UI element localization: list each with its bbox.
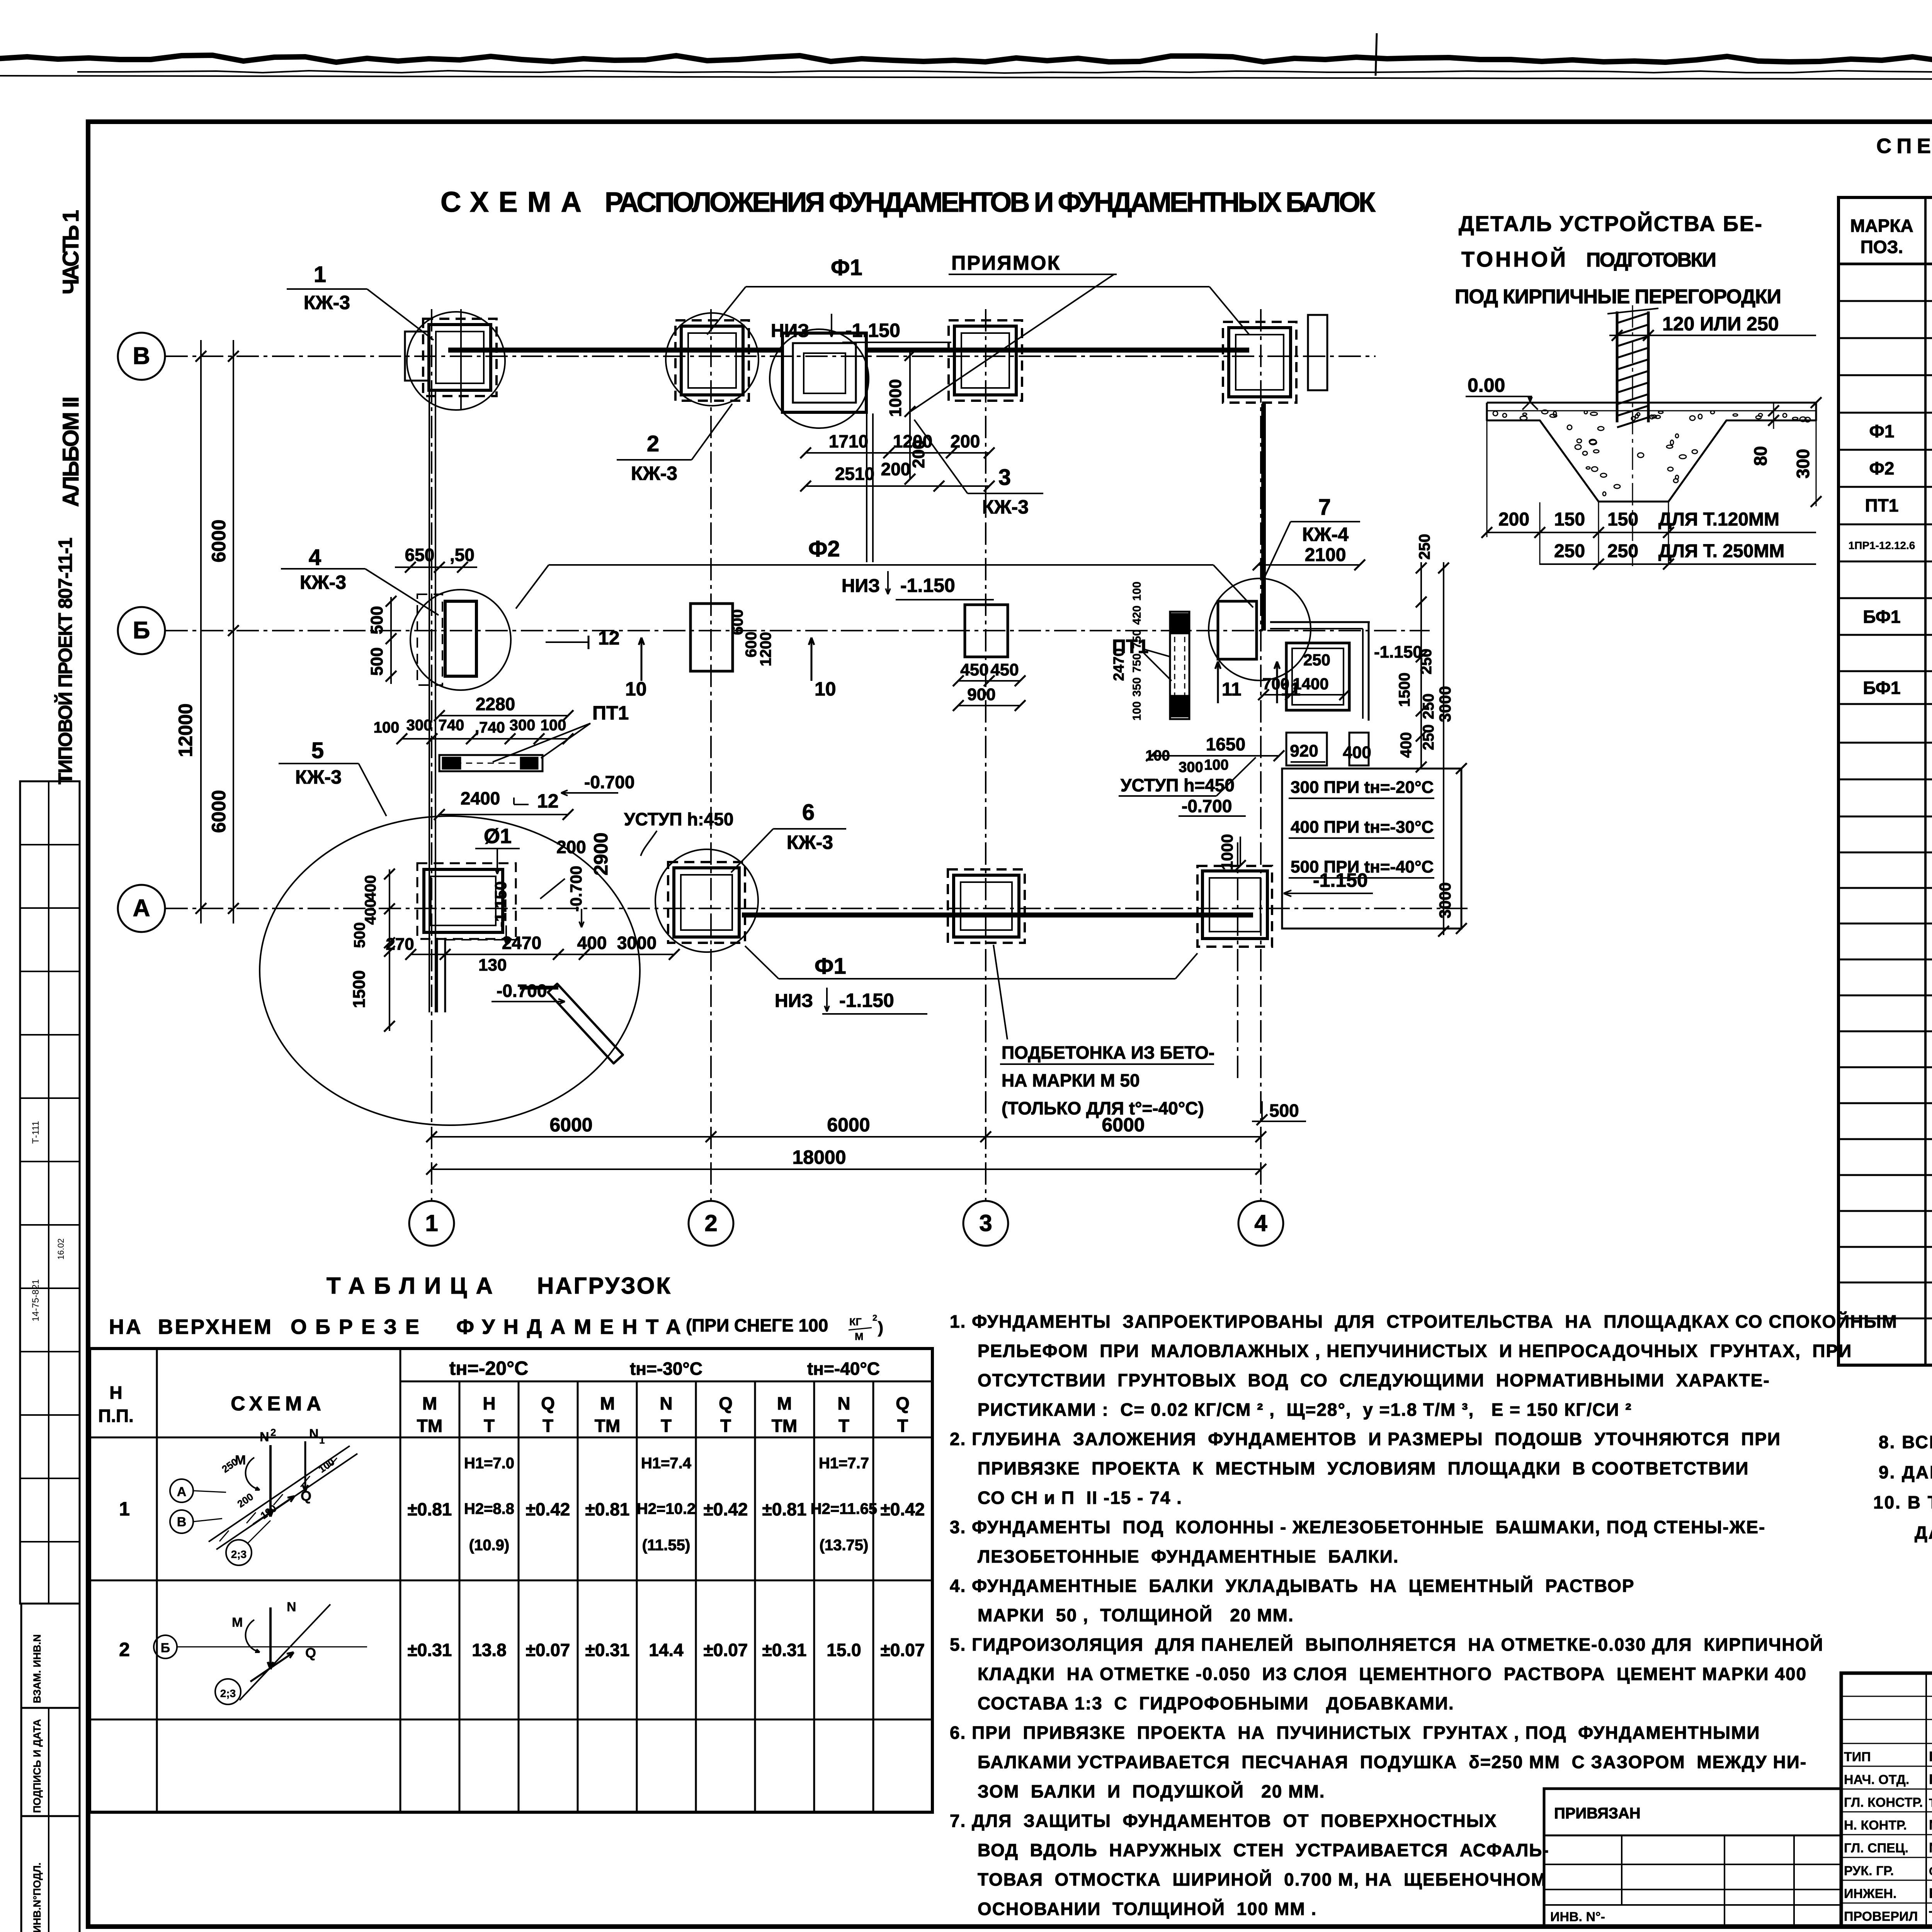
axis column 1 line — [431, 309, 432, 1200]
small pits 920-400 — [1286, 733, 1327, 765]
corner walls Б-4 — [1270, 621, 1370, 623]
svg-text:650: 650 — [405, 545, 435, 565]
svg-text:ДЛЯ Т. 250ММ: ДЛЯ Т. 250ММ — [1658, 541, 1784, 561]
svg-text:-1.150: -1.150 — [845, 320, 900, 341]
svg-text:ОТСУТСТВИИ ГРУНТОВЫХ ВОД СО: ОТСУТСТВИИ ГРУНТОВЫХ ВОД СО СЛЕДУЮЩИМИ Н… — [978, 1370, 1770, 1390]
svg-text:3000: 3000 — [617, 933, 656, 953]
svg-text:КЖ-3: КЖ-3 — [295, 766, 342, 788]
svg-text:ЛЕЗОБЕТОННЫЕ ФУНДАМЕНТНЫЕ БА: ЛЕЗОБЕТОННЫЕ ФУНДАМЕНТНЫЕ БАЛКИ. — [978, 1546, 1399, 1566]
svg-text:6000: 6000 — [549, 1114, 592, 1136]
svg-text:-1.150: -1.150 — [900, 575, 955, 596]
svg-text:±0.31: ±0.31 — [762, 1640, 807, 1660]
svg-text:80: 80 — [1750, 446, 1770, 466]
svg-text:ПОПОВ: ПОПОВ — [1929, 1748, 1932, 1764]
priamok pit footing — [782, 333, 866, 412]
svg-text:±0.07: ±0.07 — [526, 1640, 570, 1660]
svg-text:ТИП: ТИП — [1844, 1750, 1871, 1764]
svg-text:100: 100 — [541, 717, 566, 734]
svg-text:3: 3 — [998, 465, 1011, 490]
svg-text:В: В — [177, 1515, 187, 1529]
svg-text:(10.9): (10.9) — [469, 1537, 510, 1554]
svg-text:N: N — [660, 1393, 672, 1413]
svg-text:2: 2 — [872, 1313, 877, 1323]
svg-text:РЕЛЬЕФОМ ПРИ МАЛОВЛАЖНЫХ , Н: РЕЛЬЕФОМ ПРИ МАЛОВЛАЖНЫХ , НЕПУЧИНИСТЫХ … — [978, 1341, 1852, 1361]
svg-text:ПТ1: ПТ1 — [1865, 495, 1899, 515]
spec table frame — [1838, 197, 1932, 1365]
svg-text:МАРКОВ: МАРКОВ — [1929, 1840, 1932, 1855]
svg-text:Т: Т — [720, 1416, 731, 1436]
svg-text:4: 4 — [309, 545, 321, 570]
svg-text:±0.42: ±0.42 — [881, 1499, 925, 1519]
svg-text:1200: 1200 — [757, 632, 774, 667]
svg-text:400: 400 — [362, 875, 379, 901]
svg-text:Б: Б — [161, 1641, 170, 1655]
drain duct diagonal — [548, 984, 623, 1063]
svg-text:1000: 1000 — [886, 379, 905, 417]
svg-text:ОБРЕЗЕ ФУНДАМЕНТА: ОБРЕЗЕ ФУНДАМЕНТА — [291, 1315, 681, 1338]
footing В-3 — [949, 320, 1022, 401]
svg-text:КЖ-4: КЖ-4 — [1302, 524, 1349, 545]
svg-text:2;3: 2;3 — [231, 1548, 247, 1560]
footing В-1 — [423, 319, 497, 396]
svg-text:М: М — [777, 1393, 792, 1413]
svg-text:ЧАСТЬ 1: ЧАСТЬ 1 — [58, 207, 83, 294]
svg-text:,50: ,50 — [450, 545, 474, 565]
schema sketch row 2 — [154, 1635, 177, 1658]
svg-text:ВОД ВДОЛЬ НАРУЖНЫХ СТЕН УС: ВОД ВДОЛЬ НАРУЖНЫХ СТЕН УСТРАИВАЕТСЯ АСФ… — [978, 1840, 1549, 1860]
svg-text:150: 150 — [1554, 509, 1585, 530]
svg-text:Ф1: Ф1 — [831, 255, 862, 280]
svg-text:(11.55): (11.55) — [642, 1537, 690, 1554]
axis circle Б — [118, 607, 165, 654]
svg-text:М: М — [600, 1393, 615, 1413]
svg-text:НИЗ: НИЗ — [775, 991, 813, 1011]
svg-text:ГОРБУНОВ: ГОРБУНОВ — [1929, 1771, 1932, 1787]
detail axis line — [1632, 305, 1633, 566]
svg-text:100: 100 — [1204, 757, 1228, 773]
privyazan table — [1544, 1789, 1841, 1926]
svg-text:Т: Т — [484, 1416, 495, 1436]
left dim chain 12000 — [200, 340, 202, 923]
svg-text:В: В — [133, 343, 150, 369]
svg-text:Т: Т — [838, 1416, 849, 1436]
svg-text:ВЗАМ. ИНВ.N: ВЗАМ. ИНВ.N — [31, 1634, 43, 1703]
svg-text:КЖ-3: КЖ-3 — [982, 496, 1029, 518]
svg-text:8. ВСЕ НЕЗАМАРКИРОВАННЫЕ ФУН: 8. ВСЕ НЕЗАМАРКИРОВАННЫЕ ФУНДАМЕНТНЫЕ БА… — [1879, 1432, 1932, 1452]
axis circle 1 — [409, 1201, 454, 1246]
svg-text:900: 900 — [967, 685, 995, 704]
svg-text:9. ДАННЫЙ ЛИСТ СМОТРИ СОВМЕС: 9. ДАННЫЙ ЛИСТ СМОТРИ СОВМЕСТНО С ЛИСТОМ… — [1879, 1462, 1932, 1482]
svg-text:ПОЗ.: ПОЗ. — [1861, 237, 1903, 257]
load table frame — [90, 1349, 932, 1812]
svg-text:КЖ-3: КЖ-3 — [300, 571, 346, 593]
svg-text:tн=-20°С: tн=-20°С — [449, 1357, 528, 1379]
svg-text:250: 250 — [1607, 541, 1638, 561]
svg-text:±0.42: ±0.42 — [704, 1499, 748, 1519]
svg-text:N: N — [309, 1427, 319, 1441]
frost depth table — [1282, 769, 1461, 929]
svg-text:Q: Q — [719, 1393, 733, 1413]
svg-text:ТАИРОВА: ТАИРОВА — [1929, 1908, 1932, 1924]
svg-text:1: 1 — [119, 1498, 130, 1520]
svg-text:ОСНОВАНИИ ТОЛЩИНОЙ 100 ММ .: ОСНОВАНИИ ТОЛЩИНОЙ 100 ММ . — [978, 1899, 1317, 1919]
svg-text:740: 740 — [439, 717, 464, 734]
svg-text:Т-111: Т-111 — [31, 1121, 41, 1144]
svg-text:ТМ: ТМ — [417, 1416, 442, 1436]
footing Б-1 — [417, 594, 442, 685]
svg-text:-1.150: -1.150 — [492, 881, 510, 927]
ПТ1 plate strip at Б-1 — [439, 755, 543, 771]
detail circle at priamok — [770, 329, 869, 428]
svg-text:ЗОМ БАЛКИ И ПОДУШКОЙ 20 М: ЗОМ БАЛКИ И ПОДУШКОЙ 20 ММ. — [978, 1781, 1325, 1801]
svg-text:750: 750 — [1131, 653, 1143, 673]
spec table row lines — [1838, 300, 1932, 302]
svg-text:250: 250 — [1303, 651, 1330, 669]
svg-text:Т: Т — [543, 1416, 553, 1436]
svg-text:300 ПРИ tн=-20°C: 300 ПРИ tн=-20°C — [1291, 778, 1434, 797]
svg-text:600: 600 — [729, 609, 746, 635]
schema sketch row 1 — [170, 1479, 193, 1502]
svg-text:Ф1: Ф1 — [1869, 421, 1895, 441]
svg-text:1: 1 — [314, 262, 326, 287]
svg-text:НИЗ: НИЗ — [771, 321, 809, 341]
svg-text:N: N — [260, 1430, 269, 1444]
svg-text:Q: Q — [301, 1488, 311, 1504]
svg-text:СОСТАВА 1:3 С ГИДРОФОБНЫМИ: СОСТАВА 1:3 С ГИДРОФОБНЫМИ ДОБАВКАМИ. — [978, 1693, 1454, 1713]
svg-text:УСТУП h:450: УСТУП h:450 — [624, 809, 733, 829]
svg-text:tн=-40°С: tн=-40°С — [807, 1359, 880, 1379]
svg-text:М: М — [422, 1393, 437, 1413]
svg-text:КЖ-3: КЖ-3 — [787, 832, 833, 853]
svg-text:3000: 3000 — [1436, 882, 1454, 918]
detail circle at Б-1 — [410, 590, 511, 690]
svg-text:(13.75): (13.75) — [820, 1537, 869, 1554]
svg-text:1: 1 — [319, 1434, 325, 1446]
svg-text:2;3: 2;3 — [220, 1687, 236, 1699]
svg-text:П.П.: П.П. — [98, 1406, 134, 1426]
section marks 10 — [641, 638, 643, 681]
margin ladder boxes — [20, 781, 80, 1604]
svg-text:-0.700: -0.700 — [584, 772, 634, 792]
axis column 4 line — [1260, 309, 1262, 1200]
svg-text:ПОДБЕТОНКА ИЗ БЕТО-: ПОДБЕТОНКА ИЗ БЕТО- — [1002, 1043, 1214, 1063]
svg-text:12000: 12000 — [175, 703, 196, 757]
axis row В line — [165, 355, 1376, 357]
brick partition column hatched — [1616, 311, 1619, 422]
svg-text:130: 130 — [478, 956, 507, 975]
svg-text:ИНЖЕН.: ИНЖЕН. — [1844, 1886, 1896, 1901]
axis circle 3 — [963, 1201, 1008, 1246]
svg-text:-0.700: -0.700 — [567, 866, 585, 912]
svg-text:250: 250 — [1420, 694, 1437, 719]
svg-text:400: 400 — [362, 899, 379, 925]
svg-text:Н: Н — [109, 1383, 122, 1403]
svg-text:12: 12 — [537, 790, 559, 812]
svg-text:±0.07: ±0.07 — [881, 1640, 925, 1660]
svg-text:400: 400 — [1343, 743, 1371, 762]
svg-text:±0.31: ±0.31 — [408, 1640, 452, 1660]
svg-text:100: 100 — [1145, 748, 1170, 764]
svg-text:ПРИЯМОК: ПРИЯМОК — [951, 252, 1061, 274]
svg-text:15.0: 15.0 — [827, 1640, 861, 1660]
title block left rows — [1841, 1696, 1932, 1697]
svg-text:ПОДГОТОВКИ: ПОДГОТОВКИ — [1586, 249, 1716, 271]
wall beam axis 4 — [1261, 404, 1266, 631]
svg-text:УСТУП h=450: УСТУП h=450 — [1121, 775, 1235, 795]
svg-text:М: М — [855, 1331, 864, 1342]
svg-text:120 ИЛИ 250: 120 ИЛИ 250 — [1662, 313, 1779, 335]
svg-text:200: 200 — [1498, 509, 1529, 530]
svg-text:5: 5 — [311, 738, 324, 763]
channel walls below priamok — [866, 413, 867, 562]
svg-text:2: 2 — [647, 431, 659, 456]
svg-text:N: N — [287, 1600, 296, 1614]
svg-text:АЛЬБОМ II: АЛЬБОМ II — [58, 395, 83, 507]
svg-text:Н2=10.2: Н2=10.2 — [637, 1500, 696, 1517]
title block frame — [1841, 1673, 1932, 1926]
svg-text:450: 450 — [960, 660, 988, 679]
concrete speckles — [1635, 414, 1638, 418]
svg-text:10: 10 — [625, 678, 647, 700]
section marks 11 — [1217, 662, 1219, 703]
footing А-3 — [948, 869, 1025, 943]
svg-text:12: 12 — [598, 627, 620, 649]
svg-text:5. ГИДРОИЗОЛЯЦИЯ ДЛЯ ПАНЕЛЕЙ: 5. ГИДРОИЗОЛЯЦИЯ ДЛЯ ПАНЕЛЕЙ ВЫПОЛНЯЕТСЯ… — [950, 1634, 1823, 1655]
svg-text:-1.150: -1.150 — [1374, 643, 1422, 662]
svg-text:2470: 2470 — [1111, 648, 1127, 681]
svg-text:3. ФУНДАМЕНТЫ ПОД КОЛОННЫ -: 3. ФУНДАМЕНТЫ ПОД КОЛОННЫ - ЖЕЛЕЗОБЕТОНН… — [950, 1517, 1765, 1537]
svg-text:1500: 1500 — [350, 970, 369, 1008]
svg-text:920: 920 — [1290, 742, 1318, 760]
pit 1400 at Б-4 — [1286, 643, 1349, 710]
bracket Ф1 row А — [779, 978, 1175, 980]
svg-text:±0.81: ±0.81 — [408, 1499, 452, 1519]
footing А-1 complex — [417, 863, 516, 939]
svg-text:Н2=8.8: Н2=8.8 — [464, 1500, 514, 1517]
big detail ellipse 5 — [260, 816, 640, 1125]
svg-text:400: 400 — [577, 933, 607, 953]
svg-text:300: 300 — [510, 717, 536, 734]
svg-text:ТЕЛЯКОВСКИЙ: ТЕЛЯКОВСКИЙ — [1929, 1796, 1932, 1810]
svg-text:ПОД КИРПИЧНЫЕ ПЕРЕГОРОДКИ: ПОД КИРПИЧНЫЕ ПЕРЕГОРОДКИ — [1455, 286, 1781, 308]
svg-text:2470: 2470 — [502, 933, 541, 953]
svg-text:6000: 6000 — [208, 790, 230, 833]
footing Б-2 — [690, 604, 733, 671]
svg-text:1000: 1000 — [1218, 834, 1236, 870]
svg-text:ДЕТАЛЬ УСТРОЙСТВА БЕ-: ДЕТАЛЬ УСТРОЙСТВА БЕ- — [1459, 211, 1762, 236]
svg-text:400 ПРИ tн=-30°C: 400 ПРИ tн=-30°C — [1291, 818, 1434, 837]
axis circle 4 — [1238, 1201, 1283, 1246]
footing Б-3 — [965, 605, 1008, 657]
svg-text:300: 300 — [1179, 759, 1203, 776]
svg-text:КЛАДКИ НА ОТМЕТКЕ -0.050 ИЗ: КЛАДКИ НА ОТМЕТКЕ -0.050 ИЗ СЛОЯ ЦЕМЕНТН… — [978, 1664, 1807, 1684]
svg-text:ИНВ. N°-: ИНВ. N°- — [1550, 1910, 1605, 1924]
svg-text:ДАНЫ ОТ ВЕСА СТЕНОВЫХ ПАНЕЛЕЙ: ДАНЫ ОТ ВЕСА СТЕНОВЫХ ПАНЕЛЕЙ — [1915, 1522, 1932, 1543]
svg-text:МАРКОВ: МАРКОВ — [1929, 1817, 1932, 1833]
svg-text:2. ГЛУБИНА ЗАЛОЖЕНИЯ ФУНДАМЕ: 2. ГЛУБИНА ЗАЛОЖЕНИЯ ФУНДАМЕНТОВ И РАЗМЕ… — [950, 1429, 1781, 1449]
svg-text:N: N — [837, 1393, 850, 1413]
footing А-4 — [1197, 866, 1272, 947]
svg-text:2400: 2400 — [461, 788, 500, 808]
svg-text:Q: Q — [541, 1393, 555, 1413]
svg-text:СО СН и П II -15 - 74 .: СО СН и П II -15 - 74 . — [978, 1488, 1182, 1508]
svg-text:2280: 2280 — [476, 694, 515, 714]
svg-text:СКОБЛИКОВА: СКОБЛИКОВА — [1929, 1864, 1932, 1878]
detail circle at Б-4 — [1209, 578, 1311, 680]
svg-text:±0.81: ±0.81 — [762, 1499, 807, 1519]
load table column lines — [156, 1349, 158, 1812]
svg-text:400: 400 — [1398, 732, 1415, 758]
svg-text:МАРКА: МАРКА — [1850, 216, 1913, 236]
svg-text:±0.81: ±0.81 — [585, 1499, 630, 1519]
svg-text:10. В ТАБЛИЦЕ НАГРУЗОК ЗНАЧЕ: 10. В ТАБЛИЦЕ НАГРУЗОК ЗНАЧЕНИЯ — [1873, 1492, 1932, 1512]
foundation beam row А — [742, 913, 1253, 918]
wall beam axis 1 — [429, 391, 430, 1012]
svg-text:А: А — [177, 1485, 187, 1499]
svg-text:2100: 2100 — [1305, 545, 1346, 565]
svg-text:±0.07: ±0.07 — [704, 1640, 748, 1660]
svg-text:2: 2 — [704, 1210, 717, 1236]
concrete prep top surface — [1487, 402, 1816, 404]
dim 80 300 right — [1773, 403, 1774, 429]
svg-text:БАЛКАМИ УСТРАИВАЕТСЯ ПЕСЧАНАЯ: БАЛКАМИ УСТРАИВАЕТСЯ ПЕСЧАНАЯ ПОДУШКА δ=… — [978, 1752, 1807, 1772]
svg-text:Н1=7.7: Н1=7.7 — [819, 1455, 869, 1472]
svg-text:700: 700 — [1262, 675, 1289, 693]
svg-text:КЖ-3: КЖ-3 — [304, 292, 350, 313]
svg-text:2510: 2510 — [835, 464, 874, 484]
svg-text:(ПРИ СНЕГЕ 100: (ПРИ СНЕГЕ 100 — [686, 1315, 828, 1335]
bottom dim chain 18000 — [432, 1168, 1261, 1170]
axis circle 2 — [689, 1201, 733, 1246]
svg-text:,740: ,740 — [475, 719, 505, 736]
svg-text:Q: Q — [896, 1393, 910, 1413]
svg-text:200: 200 — [556, 837, 586, 857]
svg-text:150: 150 — [1607, 509, 1638, 530]
svg-text:250: 250 — [1416, 534, 1433, 560]
svg-text:Т: Т — [661, 1416, 672, 1436]
svg-text:Н: Н — [483, 1393, 495, 1413]
detail circle at В-2 — [666, 313, 759, 406]
svg-text:14.4: 14.4 — [649, 1640, 684, 1660]
svg-text:350: 350 — [1131, 677, 1143, 697]
svg-text:Ф1: Ф1 — [815, 954, 846, 979]
svg-text:6: 6 — [802, 800, 815, 825]
margin box ПОДПИСЬ И ДАТА — [21, 1708, 80, 1816]
svg-text:Б: Б — [133, 617, 150, 644]
top center registration tick — [1376, 33, 1377, 76]
svg-text:ПТ1: ПТ1 — [592, 702, 629, 724]
footing Б-4 — [1218, 601, 1257, 659]
svg-text:10: 10 — [815, 678, 836, 700]
svg-text:Т: Т — [897, 1416, 908, 1436]
footing В-2 — [675, 320, 749, 401]
footing А-2 — [668, 862, 745, 943]
left dim chain 6000+6000 — [233, 340, 234, 923]
svg-text:±0.31: ±0.31 — [585, 1640, 630, 1660]
svg-text:16.02: 16.02 — [56, 1238, 66, 1260]
footing В-4 — [1223, 322, 1296, 403]
svg-text:-0.700: -0.700 — [497, 981, 547, 1001]
svg-text:300: 300 — [406, 717, 432, 734]
axis row А line — [165, 908, 1468, 909]
svg-text:7. ДЛЯ ЗАЩИТЫ ФУНДАМЕНТОВ О: 7. ДЛЯ ЗАЩИТЫ ФУНДАМЕНТОВ ОТ ПОВЕРХНОСТН… — [950, 1811, 1497, 1831]
svg-text:4: 4 — [1254, 1210, 1267, 1236]
svg-text:750: 750 — [1131, 629, 1143, 649]
svg-text:БФ1: БФ1 — [1863, 678, 1900, 698]
svg-text:13.8: 13.8 — [472, 1640, 507, 1660]
svg-text:ТИПОВОЙ ПРОЕКТ 807-11-1: ТИПОВОЙ ПРОЕКТ 807-11-1 — [54, 537, 76, 784]
svg-text:ДЛЯ Т.120ММ: ДЛЯ Т.120ММ — [1658, 509, 1779, 530]
bottom dim chain 6000x3 — [432, 1136, 1261, 1138]
svg-text:МАРКИ 50 , ТОЛЩИНОЙ 20 ММ.: МАРКИ 50 , ТОЛЩИНОЙ 20 ММ. — [978, 1605, 1294, 1625]
svg-text:1. ФУНДАМЕНТЫ ЗАПРОЕКТИРОВАНЫ: 1. ФУНДАМЕНТЫ ЗАПРОЕКТИРОВАНЫ ДЛЯ СТРОИТ… — [950, 1311, 1898, 1332]
svg-text:ЕРМАКОВА: ЕРМАКОВА — [1929, 1885, 1932, 1901]
svg-text:±0.42: ±0.42 — [526, 1499, 570, 1519]
axis row Б line — [165, 630, 1430, 631]
bracket Ф2 row Б — [549, 564, 1213, 566]
svg-text:500: 500 — [367, 606, 386, 634]
svg-text:Н2=11.65: Н2=11.65 — [811, 1500, 877, 1517]
axis circle В — [118, 333, 165, 380]
svg-text:100: 100 — [1131, 582, 1143, 601]
svg-text:РИСТИКАМИ : С= 0.02 КГ/СМ ² ,: РИСТИКАМИ : С= 0.02 КГ/СМ ² , Щ=28°, у =… — [978, 1400, 1632, 1420]
svg-text:Н1=7.4: Н1=7.4 — [641, 1455, 692, 1472]
detail circle at А-2 — [655, 849, 758, 952]
svg-text:2: 2 — [270, 1427, 276, 1438]
svg-text:): ) — [878, 1318, 883, 1337]
svg-text:2900: 2900 — [590, 832, 612, 875]
svg-text:2: 2 — [119, 1639, 130, 1660]
svg-text:200: 200 — [881, 459, 911, 479]
svg-text:ПРИВЯЗАН: ПРИВЯЗАН — [1554, 1805, 1641, 1822]
svg-text:500: 500 — [1269, 1100, 1299, 1121]
concrete prep body — [1487, 403, 1816, 502]
svg-text:3: 3 — [979, 1210, 992, 1236]
svg-text:14-75-821: 14-75-821 — [31, 1279, 41, 1321]
svg-text:Ø1: Ø1 — [484, 825, 512, 848]
svg-text:18000: 18000 — [792, 1146, 846, 1168]
svg-text:1710: 1710 — [829, 431, 868, 451]
svg-text:11: 11 — [1222, 679, 1242, 700]
svg-text:6000: 6000 — [827, 1114, 870, 1136]
svg-text:0.00: 0.00 — [1468, 374, 1505, 396]
svg-text:1650: 1650 — [1206, 734, 1245, 754]
detail circle at В-1 — [407, 312, 505, 410]
svg-text:1500: 1500 — [1396, 673, 1413, 707]
svg-text:Q: Q — [305, 1645, 316, 1661]
axis circle А — [118, 885, 165, 932]
svg-text:ПРОВЕРИЛ: ПРОВЕРИЛ — [1844, 1909, 1918, 1924]
svg-text:(ТОЛЬКО ДЛЯ t°=-40°C): (ТОЛЬКО ДЛЯ t°=-40°C) — [1002, 1098, 1204, 1118]
svg-text:300: 300 — [1793, 449, 1813, 479]
svg-text:-0.700: -0.700 — [1182, 796, 1232, 816]
svg-text:250: 250 — [1554, 541, 1585, 561]
load table header lines — [400, 1381, 932, 1383]
svg-text:БФ1: БФ1 — [1863, 607, 1900, 627]
svg-text:tн=-30°С: tн=-30°С — [630, 1359, 702, 1379]
svg-text:М: М — [235, 1453, 246, 1468]
svg-text:100: 100 — [374, 719, 400, 736]
svg-text:СХЕМА: СХЕМА — [231, 1393, 326, 1415]
svg-text:420: 420 — [1131, 605, 1143, 625]
svg-text:7: 7 — [1318, 495, 1331, 520]
axis column 3 line — [985, 309, 986, 1200]
svg-text:СПЕЦИФИКАЦИЯ ЭЛЕМЕНТОВ К СХЕМЕ: СПЕЦИФИКАЦИЯ ЭЛЕМЕНТОВ К СХЕМЕ — [1876, 134, 1932, 158]
svg-text:500: 500 — [367, 647, 386, 675]
svg-text:200: 200 — [909, 440, 928, 468]
svg-text:6. ПРИ ПРИВЯЗКЕ ПРОЕКТА НА: 6. ПРИ ПРИВЯЗКЕ ПРОЕКТА НА ПУЧИНИСТЫХ ГР… — [950, 1723, 1760, 1743]
svg-text:ПРИВЯЗКЕ ПРОЕКТА К МЕСТНЫМ: ПРИВЯЗКЕ ПРОЕКТА К МЕСТНЫМ УСЛОВИЯМ ПЛОЩ… — [978, 1458, 1749, 1478]
